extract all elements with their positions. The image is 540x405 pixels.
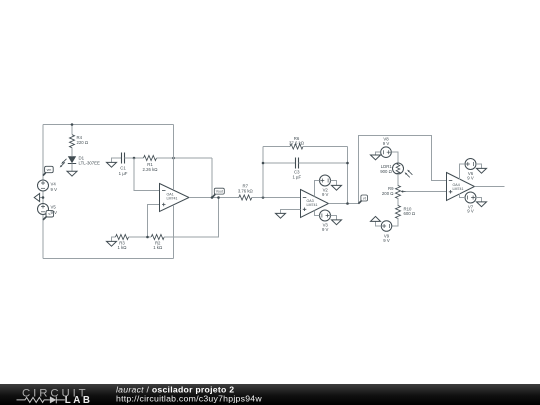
wire minus input — [134, 158, 160, 191]
resistor R10 — [396, 206, 401, 219]
junction C3 left — [262, 162, 265, 165]
node label Vout — [212, 188, 224, 198]
wire top rail — [43, 124, 174, 126]
svg-text:http://circuitlab.com/c3uy7hpj: http://circuitlab.com/c3uy7hpjps94w — [116, 394, 262, 404]
wire LDR to R9 — [397, 174, 399, 186]
node label vt — [358, 195, 367, 204]
op-amp OA1 V+ stem — [173, 125, 175, 191]
wire R9 wiper to OA4 plus — [406, 191, 447, 193]
capacitor C3 — [296, 158, 299, 169]
junction output feedback — [346, 202, 349, 205]
label OA3 — [307, 199, 318, 207]
junction C3 right — [346, 162, 349, 165]
ground between V4 V5 (left pointing) — [34, 194, 43, 202]
voltage source V2 — [314, 175, 341, 197]
wire C3 line right — [299, 162, 348, 164]
FOOTER BAR — [0, 384, 540, 405]
logo resistor-diode line — [17, 397, 65, 404]
svg-text:LAB: LAB — [65, 395, 93, 405]
ground at C1 — [107, 158, 122, 167]
ground at OA3 plus — [276, 210, 301, 219]
voltage source V5 — [38, 204, 49, 215]
wire R6 right — [303, 146, 348, 148]
logo diode triangle — [50, 396, 56, 403]
ground below D1 — [67, 171, 77, 176]
op-amp OA1 V- stem — [173, 205, 175, 259]
wire R10 to V9 — [392, 218, 398, 226]
junction plus stem / bottom line — [146, 236, 149, 239]
resistor R3 — [116, 235, 129, 240]
wire feedback down to output — [211, 158, 213, 198]
label OA1 — [167, 193, 178, 201]
voltage source V6 — [460, 159, 487, 180]
junction top rail R4 — [71, 123, 74, 126]
wire D1 to ground — [71, 164, 73, 172]
capacitor C1 — [122, 153, 125, 164]
op-amp OA4 — [447, 173, 475, 201]
resistor R2 — [151, 235, 164, 240]
resistor R6 — [290, 144, 303, 149]
wire R4 branch top — [71, 125, 73, 135]
LDR LDR1 — [393, 163, 413, 177]
node label vm — [43, 166, 53, 175]
wire R1 right to feedback corner — [157, 157, 213, 159]
wire OA3 output — [329, 203, 359, 205]
junction output/feedbacks — [211, 196, 214, 199]
wire C3 line left — [263, 162, 296, 164]
wire bottom rail — [43, 258, 174, 260]
junction C1/R1/minus — [133, 157, 136, 160]
voltage source V9 — [371, 216, 392, 231]
voltage source V3 — [314, 210, 341, 225]
wire left rail lower — [42, 215, 44, 259]
op-amp OA3 — [301, 190, 329, 218]
wire plus input — [148, 205, 160, 238]
wire OA4 output — [475, 186, 505, 188]
wire R7 to OA3 minus — [252, 197, 301, 199]
wire C1 to junction — [125, 157, 144, 159]
resistor R7 — [239, 195, 252, 200]
voltage source V8 — [371, 147, 399, 163]
voltage source V7 — [460, 192, 487, 207]
node label v- — [43, 211, 54, 220]
ground at R3 — [107, 237, 117, 246]
wire feedback left vertical — [262, 147, 264, 198]
op-amp OA1 — [160, 184, 190, 212]
SCHEMATIC TEXT LABELS — [47, 135, 474, 250]
junction V4/V5 ground — [42, 196, 45, 199]
wire R3 to R2 — [129, 236, 152, 238]
resistor R4 — [70, 135, 75, 148]
label OA4 — [453, 183, 464, 191]
wire R9 to R10 — [397, 198, 399, 206]
voltage source V4 — [38, 180, 49, 191]
wire left rail upper — [42, 125, 44, 181]
junction R7/feedback — [262, 196, 265, 199]
wire OA1 output — [189, 197, 239, 199]
wire R4 to D1 — [71, 148, 73, 157]
wire R2 right then up to output — [164, 198, 218, 238]
resistor R1 — [144, 156, 157, 161]
wire up and over to OA4 — [359, 136, 447, 204]
potentiometer R9 — [396, 186, 406, 199]
wire left rail mid — [42, 191, 44, 204]
wire R6 line — [263, 146, 290, 148]
LED D1 — [60, 156, 77, 167]
junction R1 line / V+ stem — [172, 157, 175, 160]
wire feedback right vertical — [347, 147, 349, 204]
